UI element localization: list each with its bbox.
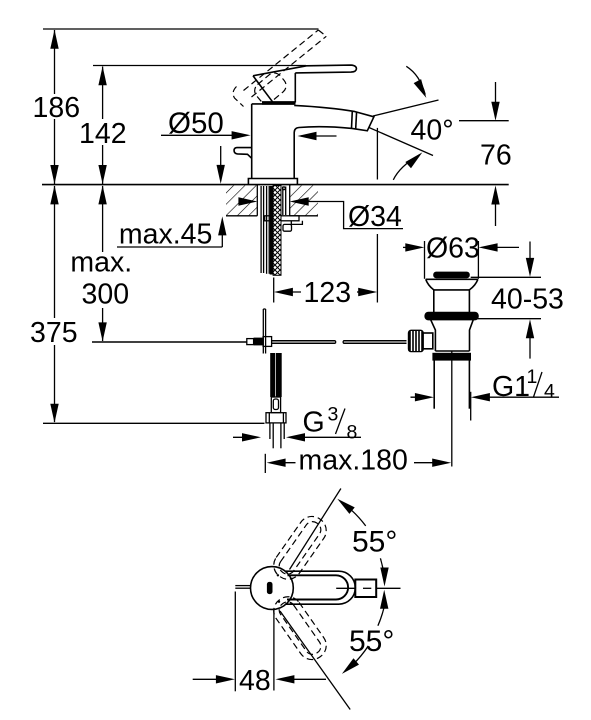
svg-text:40°: 40°	[411, 115, 454, 147]
svg-text:max.180: max.180	[299, 445, 408, 477]
svg-text:55°: 55°	[352, 526, 397, 559]
svg-text:G: G	[303, 406, 325, 438]
svg-text:max.: max.	[70, 247, 132, 279]
svg-text:375: 375	[30, 317, 78, 349]
svg-text:max.45: max.45	[119, 219, 212, 251]
svg-text:Ø63: Ø63	[426, 232, 480, 264]
svg-text:4: 4	[544, 380, 555, 402]
svg-text:123: 123	[304, 277, 352, 309]
svg-text:40-53: 40-53	[491, 284, 564, 316]
svg-text:8: 8	[347, 422, 358, 444]
svg-text:1: 1	[527, 366, 538, 388]
svg-text:G1: G1	[492, 371, 530, 403]
svg-text:186: 186	[33, 92, 81, 124]
svg-text:142: 142	[79, 118, 127, 150]
svg-text:300: 300	[82, 278, 130, 310]
svg-text:3: 3	[328, 404, 339, 426]
svg-text:55°: 55°	[349, 625, 394, 658]
svg-text:76: 76	[480, 140, 512, 172]
svg-text:Ø34: Ø34	[348, 201, 402, 233]
svg-text:48: 48	[239, 665, 271, 697]
